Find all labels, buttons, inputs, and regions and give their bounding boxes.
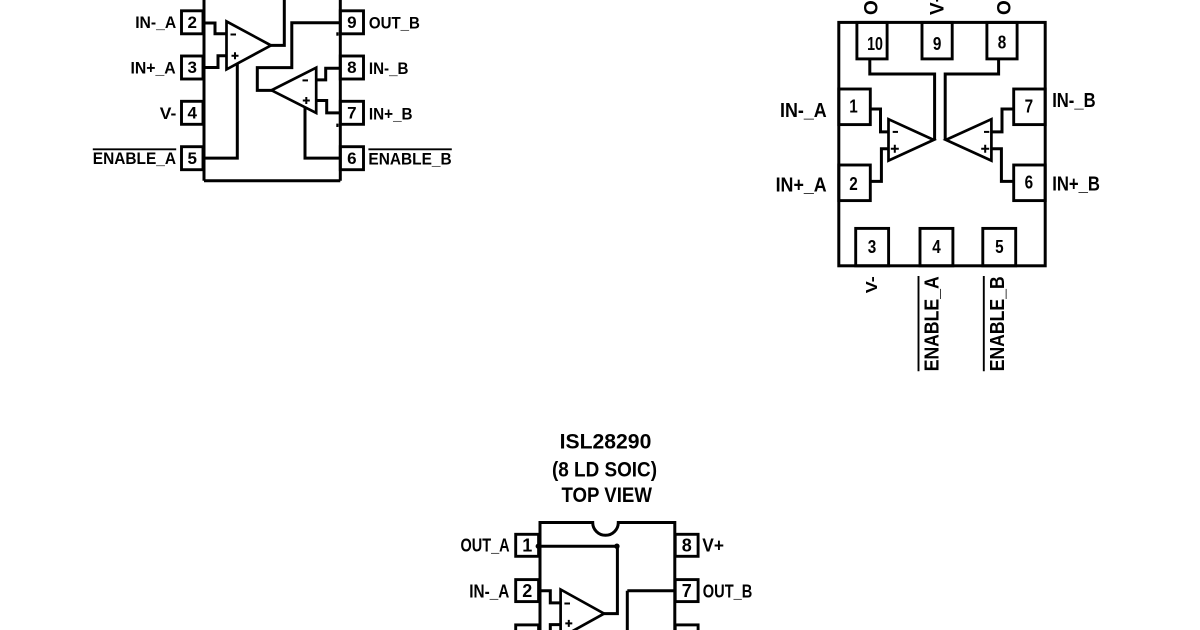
svg-text:8: 8 [682, 536, 692, 556]
svg-text:ENABLE_B: ENABLE_B [987, 276, 1009, 371]
svg-text:IN+_A: IN+_A [131, 58, 176, 77]
svg-text:2: 2 [522, 581, 532, 601]
svg-text:OUT_A: OUT_A [862, 0, 883, 15]
svg-text:5: 5 [995, 237, 1004, 257]
svg-text:4: 4 [187, 104, 197, 123]
svg-text:9: 9 [933, 34, 942, 54]
svg-text:ENABLE_A: ENABLE_A [922, 276, 944, 371]
svg-text:IN+_B: IN+_B [369, 104, 413, 123]
svg-text:2: 2 [187, 13, 196, 32]
svg-text:7: 7 [682, 581, 692, 601]
svg-text:7: 7 [347, 104, 356, 123]
svg-text:(8 LD SOIC): (8 LD SOIC) [552, 458, 657, 481]
svg-text:V+: V+ [702, 535, 724, 555]
svg-text:OUT_B: OUT_B [995, 0, 1016, 15]
svg-text:ISL28290: ISL28290 [560, 431, 652, 454]
svg-text:IN-_B: IN-_B [369, 59, 409, 78]
svg-text:IN-_A: IN-_A [135, 13, 176, 32]
svg-text:IN-_B: IN-_B [1052, 90, 1095, 112]
svg-text:OUT_B: OUT_B [703, 581, 753, 601]
svg-text:IN-_A: IN-_A [469, 581, 509, 601]
svg-text:TOP VIEW: TOP VIEW [561, 484, 652, 507]
svg-text:ENABLE_B: ENABLE_B [368, 150, 451, 169]
svg-text:V+: V+ [928, 0, 949, 15]
svg-text:8: 8 [347, 58, 356, 77]
svg-text:4: 4 [932, 237, 941, 257]
svg-text:1: 1 [849, 97, 858, 117]
svg-text:6: 6 [1025, 173, 1034, 193]
svg-text:7: 7 [1025, 97, 1034, 117]
svg-text:2: 2 [849, 174, 858, 194]
svg-text:ENABLE_A: ENABLE_A [93, 149, 176, 168]
svg-text:IN+_A: IN+_A [776, 174, 827, 196]
svg-text:OUT_B: OUT_B [369, 14, 420, 33]
svg-text:6: 6 [347, 149, 356, 168]
svg-text:V-: V- [160, 104, 177, 123]
svg-text:10: 10 [867, 34, 883, 54]
svg-text:8: 8 [998, 33, 1007, 53]
svg-text:IN+_B: IN+_B [1052, 173, 1100, 195]
svg-text:OUT_A: OUT_A [461, 535, 510, 555]
svg-text:3: 3 [868, 237, 877, 257]
svg-text:3: 3 [187, 58, 196, 77]
svg-text:5: 5 [187, 149, 196, 168]
svg-text:V-: V- [864, 276, 881, 293]
svg-text:IN-_A: IN-_A [780, 100, 827, 122]
svg-text:9: 9 [347, 13, 356, 32]
svg-text:1: 1 [522, 536, 532, 556]
